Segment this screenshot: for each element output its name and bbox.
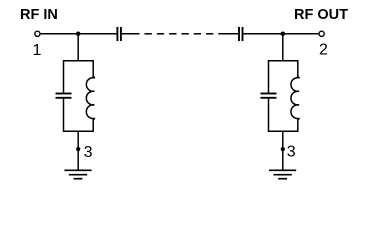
node: right ground pin junction (281, 147, 285, 151)
left tank loop (top and bottom bars) (63, 61, 94, 132)
wire: terminal 1 to capacitor C1 (41, 33, 117, 35)
inductor L1 (left shunt) (86, 61, 94, 132)
svg-text:2: 2 (319, 42, 328, 59)
svg-text:1: 1 (32, 42, 41, 59)
svg-text:RF IN: RF IN (20, 7, 58, 23)
capacitor C1 (series, left) (117, 27, 121, 41)
svg-text:3: 3 (84, 144, 93, 161)
node: left ground pin junction (76, 147, 80, 151)
ground (left) (64, 170, 91, 178)
capacitor C4 (right shunt) (261, 61, 277, 132)
wire: left tank to ground (77, 131, 79, 170)
svg-text:3: 3 (287, 143, 296, 160)
inductor L2 (right shunt) (291, 61, 299, 132)
svg-text:RF OUT: RF OUT (294, 7, 348, 23)
wire: dashed break to capacitor C2 (218, 33, 238, 35)
terminal 1 (RF IN port) (35, 31, 40, 36)
terminal 2 (RF OUT port) (319, 31, 324, 36)
wire: right tank to ground (282, 131, 284, 170)
wire (dashed continuation) (145, 33, 214, 35)
node A (left junction) (76, 32, 81, 37)
wire: node B down to right tank (282, 34, 284, 61)
node B (right junction) (281, 32, 286, 37)
wire: C1 to dashed break (122, 33, 140, 35)
capacitor C3 (left shunt) (56, 61, 72, 132)
capacitor C2 (series, right) (239, 27, 243, 41)
right tank loop (top and bottom bars) (268, 61, 299, 132)
wire: node A down to left tank (77, 34, 79, 61)
wire: C2 to terminal 2 (244, 33, 319, 35)
ground (right) (269, 170, 296, 178)
